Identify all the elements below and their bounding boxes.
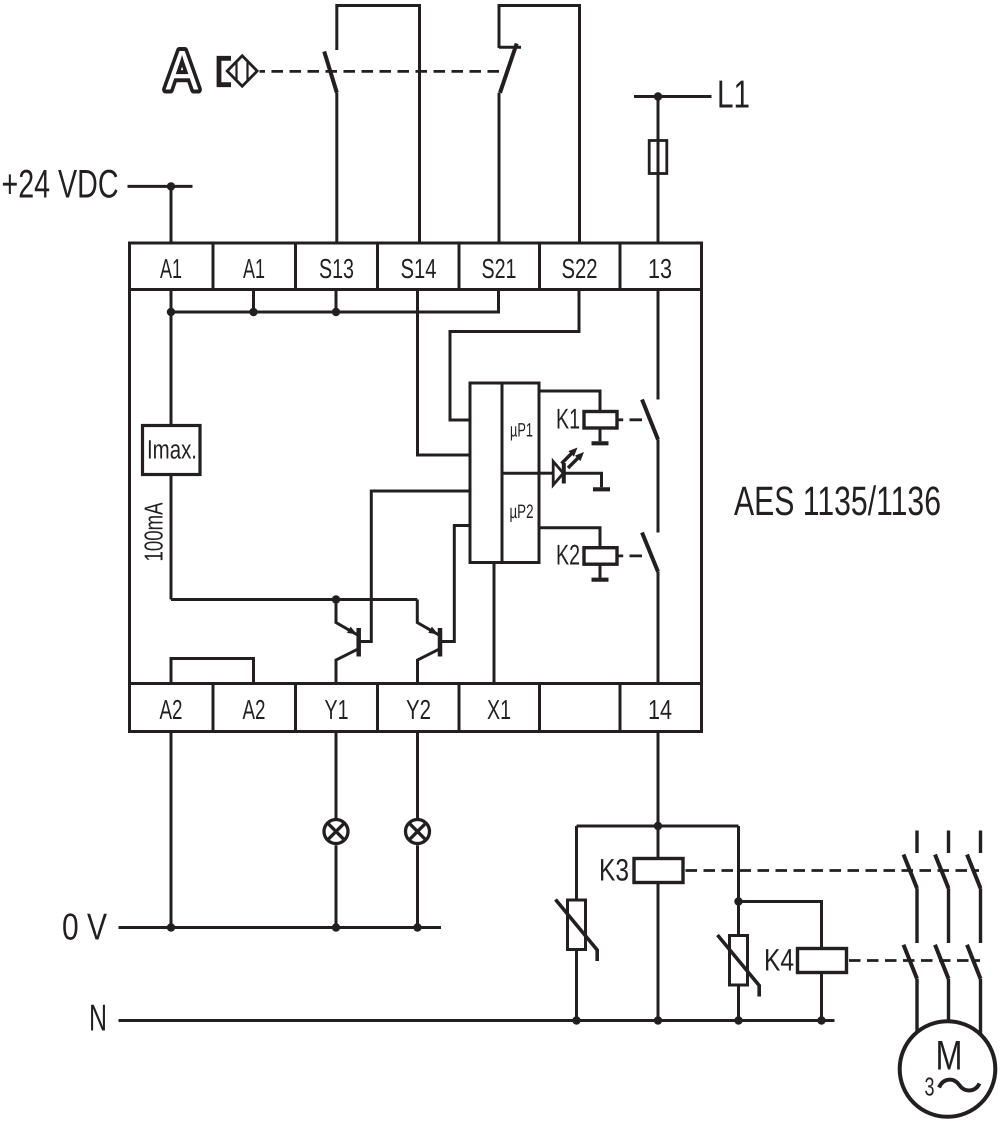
- node K4 branch: [734, 897, 742, 905]
- wire loop S13 to S14: [337, 6, 420, 244]
- wire L1: [634, 95, 712, 98]
- svg-text:A: A: [166, 39, 200, 102]
- svg-text:14: 14: [648, 694, 672, 725]
- relay coil K2: [539, 528, 617, 578]
- wire L1 to 13: [657, 97, 660, 244]
- wire Y2 down: [416, 732, 419, 928]
- wire +24VDC to A1: [170, 186, 173, 243]
- wire S14 to uP: [418, 290, 471, 456]
- relay coil K3: [634, 859, 683, 883]
- wire to K4 coil: [739, 902, 822, 1021]
- wire branch top: [577, 825, 739, 828]
- mechanical linkage dashed line: [260, 70, 506, 73]
- contact K3 phase L2: [935, 831, 949, 944]
- svg-text:K3: K3: [599, 853, 629, 888]
- svg-text:+24 VDC: +24 VDC: [2, 163, 119, 207]
- node K4 on N: [817, 1016, 825, 1024]
- current limiter Imax box: [143, 312, 201, 600]
- svg-text:3: 3: [925, 1072, 935, 1102]
- svg-text:Imax.: Imax.: [147, 435, 197, 465]
- wire Imax to transistors bus: [171, 598, 417, 601]
- svg-text:S22: S22: [562, 253, 598, 284]
- varistor R2: [718, 935, 760, 997]
- node Y2 on 0V: [413, 923, 421, 931]
- node bus S13: [332, 308, 340, 316]
- wire A2 to A2 link: [171, 659, 254, 684]
- node A sensor label: [166, 39, 200, 102]
- relay module AES outer box: [130, 243, 702, 732]
- switch contact NC bar (channel 2): [499, 46, 521, 49]
- svg-text:S21: S21: [482, 253, 517, 284]
- wire K2 contact to 14: [657, 572, 660, 684]
- transistor Q1: [336, 491, 470, 684]
- node bus A1: [167, 308, 175, 316]
- node varistor2 on N: [734, 1016, 742, 1024]
- svg-text:µP2: µP2: [510, 501, 534, 523]
- magnet actuator bracket: [219, 58, 231, 84]
- K4 linkage dash line: [849, 959, 980, 962]
- svg-text:K2: K2: [556, 540, 580, 572]
- svg-text:L1: L1: [717, 74, 750, 117]
- N rail: [119, 1019, 835, 1022]
- svg-text:M: M: [936, 1032, 963, 1079]
- terminal row bottom: [130, 684, 702, 732]
- wire 14 down to N: [657, 732, 660, 1021]
- svg-text:A1: A1: [160, 253, 182, 284]
- lamp H1: [324, 820, 348, 844]
- node 14 branch: [654, 822, 662, 830]
- node bus A1b: [249, 308, 257, 316]
- wire S22 to uP: [450, 290, 579, 421]
- ground K1: [592, 441, 609, 445]
- wire loop S21 to S22: [499, 6, 580, 244]
- terminal row top: [130, 243, 702, 290]
- svg-text:Y2: Y2: [406, 694, 431, 725]
- svg-text:13: 13: [648, 253, 672, 284]
- LED D1: [539, 448, 602, 488]
- wire +24VDC: [128, 185, 193, 188]
- wire Y1 down: [335, 732, 338, 928]
- contact K4 phase L1: [904, 945, 918, 1032]
- ground K2: [592, 578, 609, 582]
- node emitter junction: [332, 595, 340, 603]
- wire switch1 to S13: [335, 93, 338, 244]
- svg-text:0 V: 0 V: [62, 906, 107, 948]
- varistor R1: [556, 900, 598, 962]
- wire internal supply bus: [171, 290, 499, 313]
- motor M1: [900, 1021, 996, 1117]
- K3 linkage dash line: [686, 869, 980, 872]
- transistor Q2: [417, 526, 470, 684]
- svg-text:A2: A2: [160, 694, 183, 725]
- wire A2 to 0V: [170, 732, 173, 928]
- contact K2 NO: [642, 533, 658, 572]
- svg-text:µP1: µP1: [510, 420, 533, 442]
- node Y1 on 0V: [332, 923, 340, 931]
- switch contact NC blade (channel 2): [500, 44, 517, 93]
- svg-text:N: N: [89, 997, 107, 1039]
- K2 linkage dashes: [619, 555, 643, 558]
- node 14 on N: [654, 1016, 662, 1024]
- svg-text:K1: K1: [556, 404, 580, 436]
- svg-text:X1: X1: [487, 694, 511, 725]
- lamp H2: [406, 820, 430, 844]
- svg-text:A2: A2: [243, 694, 266, 725]
- svg-text:Y1: Y1: [325, 694, 349, 725]
- fuse F1: [649, 141, 667, 174]
- ground LED: [593, 487, 610, 491]
- svg-text:100mA: 100mA: [139, 502, 169, 561]
- relay coil K4: [798, 949, 847, 973]
- wire varistor2 branch: [737, 826, 740, 1021]
- microprocessor box U1: [470, 383, 539, 563]
- relay coil K1: [539, 391, 617, 441]
- contact K3 phase L3: [967, 831, 981, 944]
- svg-text:S14: S14: [401, 253, 437, 284]
- 0V rail: [119, 926, 442, 929]
- K1 linkage dashes: [619, 418, 643, 421]
- node junction +24VDC: [167, 182, 175, 190]
- wire 13 to K1 contact: [657, 290, 660, 400]
- svg-text:S13: S13: [319, 253, 354, 284]
- node junction L1: [654, 92, 662, 100]
- contact K3 phase L1: [904, 831, 918, 944]
- node A2 on 0V: [167, 923, 175, 931]
- proximity sensor B1 diamond: [227, 56, 257, 86]
- svg-text:A1: A1: [243, 253, 265, 284]
- wire uP to X1: [493, 563, 496, 684]
- wire varistor1 branch: [575, 826, 578, 1021]
- wire K1 contact to K2 contact: [657, 440, 660, 533]
- contact K1 NO: [642, 400, 658, 440]
- wire switch2 to S21: [498, 93, 501, 243]
- svg-text:AES 1135/1136: AES 1135/1136: [734, 478, 941, 524]
- contact K4 phase L3: [967, 945, 981, 1035]
- node varistor1 on N: [572, 1016, 580, 1024]
- svg-text:K4: K4: [764, 943, 794, 978]
- switch contact NO (channel 1): [324, 52, 337, 93]
- contact K4 phase L2: [935, 945, 949, 1022]
